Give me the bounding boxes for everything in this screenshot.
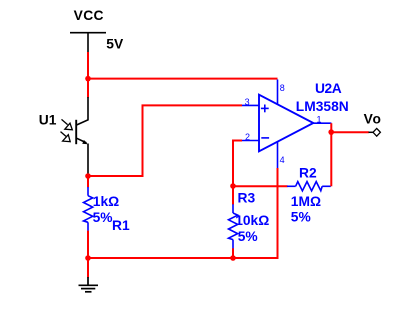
wire: R3 to ground rail (232, 248, 234, 258)
svg-text:2: 2 (245, 132, 250, 142)
pin 1 stub (313, 122, 331, 124)
ground (79, 277, 99, 292)
photo arrow 1 (62, 119, 68, 124)
wire: op-amp pin 2 to feedback node (233, 141, 242, 187)
minus marker (261, 137, 269, 139)
wire: ground node to ground symbol (87, 258, 89, 278)
wire: VCC symbol to supply node (87, 52, 89, 79)
svg-text:5%: 5% (93, 210, 113, 225)
svg-text:U1: U1 (39, 112, 57, 127)
svg-text:R2: R2 (299, 166, 317, 181)
base bar (75, 120, 77, 144)
op-amp U2A LM358N (242, 80, 331, 169)
svg-text:1kΩ: 1kΩ (93, 194, 119, 209)
svg-text:5V: 5V (106, 37, 124, 52)
wire: output node to Vo terminal (331, 131, 369, 133)
svg-text:R3: R3 (238, 190, 256, 205)
wire: feedback node to R3 (232, 186, 234, 205)
svg-text:10kΩ: 10kΩ (235, 213, 269, 228)
svg-text:U2A: U2A (315, 81, 342, 96)
collector pin (77, 97, 88, 125)
power symbol VCC (70, 33, 106, 53)
wire: supply rail to op-amp pin 8 (88, 78, 278, 80)
svg-text:1MΩ: 1MΩ (291, 194, 321, 209)
svg-text:Vo: Vo (364, 112, 382, 127)
wire: emitter node to R1 (87, 176, 89, 187)
svg-text:VCC: VCC (74, 8, 104, 23)
junction: emitter node (85, 173, 91, 179)
pin 4 stub (277, 142, 279, 169)
phototransistor U1 (61, 97, 89, 176)
wire: emitter node to op-amp pin 3 (88, 105, 242, 176)
svg-text:R1: R1 (112, 218, 130, 233)
svg-text:4: 4 (280, 155, 285, 165)
pin 2 stub (242, 140, 259, 142)
wire: feedback node to R2 (233, 185, 288, 187)
junction: supply node (85, 76, 91, 82)
pin 8 stub (277, 80, 279, 105)
svg-text:LM358N: LM358N (296, 99, 349, 114)
wire: ground rail (88, 168, 278, 258)
wire: R1 to ground rail (87, 231, 89, 258)
svg-text:3: 3 (245, 97, 250, 107)
junction: output node (328, 129, 334, 135)
photo arrow 2 (61, 132, 67, 137)
resistor R3 (229, 204, 238, 248)
emitter with arrow (77, 138, 87, 143)
wire: supply node to U1 collector (87, 79, 89, 98)
svg-text:5%: 5% (238, 229, 258, 244)
svg-text:8: 8 (280, 83, 285, 93)
pin 3 stub (242, 104, 259, 106)
junction: feedback node (230, 183, 236, 189)
svg-text:5%: 5% (291, 209, 311, 224)
resistor R2 (287, 182, 331, 191)
emitter pin (87, 144, 89, 177)
plus marker (261, 107, 269, 109)
svg-text:1: 1 (317, 114, 322, 124)
junction: ground node at R3 (230, 255, 236, 261)
junction: ground node at R1 (85, 255, 91, 261)
wire: R2 to output node (330, 123, 332, 186)
terminal Vo (369, 131, 374, 133)
resistor R1 (84, 187, 93, 231)
